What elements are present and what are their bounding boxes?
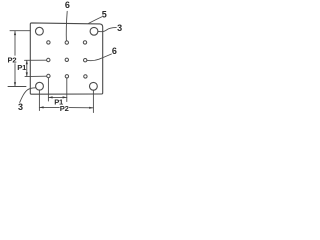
leader to label 6 (top) — [65, 11, 68, 41]
svg-text:P2: P2 — [60, 104, 69, 113]
arrow P2-left up — [14, 31, 16, 35]
extension line left top (big-hole row 1) — [10, 30, 30, 32]
hole (big) bottom-left — [36, 82, 44, 90]
dimension line P1 left — [26, 61, 28, 77]
bottom extension x=48.4 (small col1) — [47, 78, 49, 101]
svg-text:6: 6 — [65, 0, 70, 10]
arrow P1-left up — [26, 60, 28, 64]
small hole r2c2 — [65, 58, 68, 61]
leader to label 5 — [89, 17, 102, 24]
extension line left small row3 — [25, 75, 47, 77]
small hole r3c1 — [47, 74, 50, 77]
small hole r2c3 — [84, 59, 87, 62]
leader to label 3 (right, wavy) — [98, 28, 116, 32]
dimension line P2 left (lower segment) — [14, 64, 16, 86]
small hole r3c3 — [84, 75, 87, 78]
svg-text:3: 3 — [117, 23, 122, 33]
arrow P1-bottom right — [63, 96, 67, 98]
dimension line P2 left (upper segment) — [14, 31, 16, 55]
arrow P1-bottom left — [49, 96, 53, 98]
leader to label 6 (right) — [87, 54, 112, 61]
bottom extension x=66.8 (small col2) — [66, 78, 68, 101]
dimension line P2 bottom (right segment) — [69, 107, 93, 109]
plate outline — [30, 23, 102, 94]
extension line left small row2 — [25, 59, 47, 61]
extension line left bottom (big-hole row 2) — [8, 86, 26, 88]
small hole r1c3 — [83, 41, 86, 44]
leader to label 3 (bottom-left) — [20, 88, 36, 103]
svg-text:3: 3 — [18, 102, 23, 112]
small hole r1c1 — [47, 41, 50, 44]
hole (big) bottom-right — [90, 82, 98, 90]
svg-text:P2: P2 — [8, 55, 17, 64]
arrow P2-left down — [14, 82, 16, 86]
hole (big) top-left — [36, 27, 44, 35]
arrow P2-bottom left — [40, 106, 44, 108]
bottom extension x=93.4 (from big hole BR) — [92, 90, 94, 112]
small hole r2c1 — [47, 58, 50, 61]
bottom extension x=39.4 (from big hole BL) — [38, 90, 40, 110]
dimension line P2 bottom (left segment) — [39, 106, 59, 108]
hole (big) top-right — [90, 27, 98, 35]
arrow P2-bottom right — [89, 107, 93, 109]
dimension line P1 bottom — [48, 96, 66, 98]
svg-text:5: 5 — [102, 10, 107, 20]
small hole r3c2 — [65, 75, 68, 78]
small hole r1c2 — [65, 41, 68, 44]
svg-text:P1: P1 — [17, 63, 27, 72]
svg-text:6: 6 — [112, 46, 117, 56]
arrow P1-left down — [26, 72, 28, 76]
